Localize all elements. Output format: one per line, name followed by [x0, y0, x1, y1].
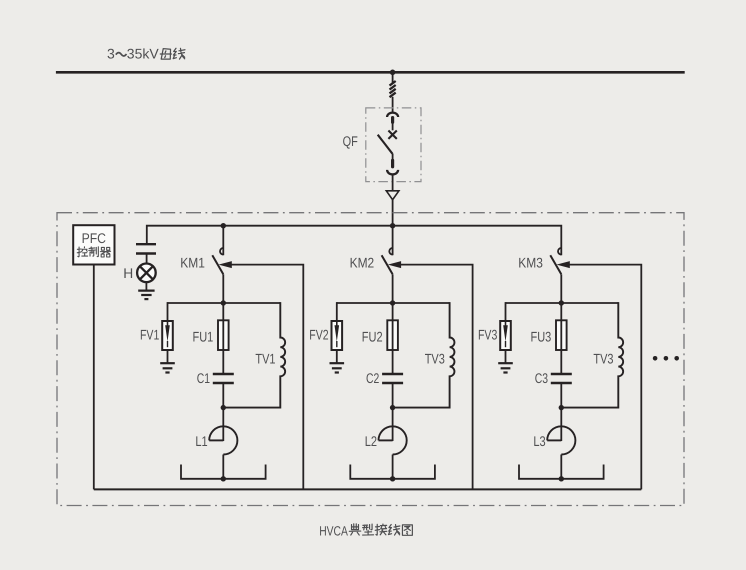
- svg-text:TV3: TV3: [425, 351, 445, 367]
- wire top bus to KM2: [392, 226, 394, 256]
- wire branch 1 rail: [168, 302, 281, 304]
- breaker QF withdrawable enclosure (dash-dot box): [366, 108, 421, 182]
- svg-text:QF: QF: [343, 133, 358, 149]
- svg-text:L1: L1: [195, 433, 207, 449]
- capacitor (coupling, lamp branch): [136, 243, 156, 245]
- wire KM3 to branch rail: [560, 274, 562, 303]
- svg-text:3: 3: [107, 45, 115, 61]
- wire KM2 return to bottom bus: [401, 265, 473, 490]
- wire top internal bus: [147, 226, 562, 256]
- wire reactor to tap bar: [222, 455, 224, 479]
- contactor KM2 actuator arrow: [388, 261, 401, 268]
- contactor KM2 fixed contact hook: [389, 248, 392, 255]
- contactor KM3 fixed contact hook: [558, 248, 561, 255]
- svg-text:FV1: FV1: [140, 327, 159, 343]
- wire lower contact to triangle: [392, 174, 394, 191]
- wire upper contact to fixed point: [392, 122, 394, 130]
- wire KM1 return to bottom bus: [231, 265, 303, 490]
- arrester FV2: [332, 321, 343, 350]
- fuse FU1: [218, 320, 229, 350]
- svg-text:KM1: KM1: [180, 255, 205, 271]
- capacitor C2: [382, 373, 403, 375]
- capacitor C1: [213, 373, 234, 375]
- drawout isolation marks: [390, 81, 396, 86]
- svg-text:FV3: FV3: [478, 327, 497, 343]
- wire rail through fuse to capacitor C2: [392, 303, 394, 374]
- node busbar tap junction: [390, 70, 396, 76]
- wire capacitor to node: [222, 383, 224, 408]
- QF lower plug-in contact: [391, 160, 394, 167]
- fuse FU3: [556, 320, 567, 350]
- svg-text:L3: L3: [533, 433, 545, 449]
- wire capacitor to node: [392, 383, 394, 408]
- svg-text:PFC: PFC: [82, 230, 106, 246]
- ground (arrester FV2): [330, 362, 345, 364]
- wire rail to arrester FV1: [167, 302, 169, 320]
- fuse FU2: [387, 320, 398, 350]
- node rail junction 2: [390, 300, 395, 305]
- QF upper plug-in contact: [387, 113, 398, 117]
- wire blade to lower contact: [392, 154, 394, 161]
- wire branch 2 rail: [337, 302, 450, 304]
- ground (arrester FV3): [498, 362, 513, 364]
- svg-text:TV1: TV1: [255, 351, 275, 367]
- wire marks to QF plug contact: [392, 97, 394, 113]
- reactor L3: [547, 426, 575, 454]
- svg-text:KM3: KM3: [518, 255, 543, 271]
- ground (lamp): [138, 290, 154, 292]
- arrester FV1: [162, 321, 173, 350]
- svg-text:FU1: FU1: [193, 329, 214, 345]
- svg-text:FU2: FU2: [362, 329, 383, 345]
- svg-text:TV3: TV3: [593, 351, 613, 367]
- svg-text:35kV: 35kV: [127, 45, 160, 61]
- QF blade: [378, 135, 393, 154]
- QF fixed contact X: [388, 131, 396, 139]
- wire triangle to top bus: [392, 200, 394, 226]
- node top bus junction branch 1: [221, 223, 226, 228]
- reactor L1: [209, 426, 237, 454]
- wire rail through fuse to capacitor C3: [560, 303, 562, 374]
- contactor KM3 actuator arrow: [557, 261, 570, 268]
- wire rail through fuse to capacitor C1: [222, 303, 224, 374]
- node top bus junction branch 2: [390, 223, 395, 228]
- svg-text:HVCA: HVCA: [319, 523, 348, 538]
- node below capacitor 2: [390, 405, 395, 410]
- wire branch 3 rail: [506, 302, 619, 304]
- busbar 3~35kV: [56, 71, 685, 74]
- node reactor tap 1: [221, 476, 226, 481]
- wire capacitor to node: [560, 383, 562, 408]
- lamp H: [137, 264, 156, 283]
- node rail junction 1: [221, 300, 226, 305]
- tap bar bracket 1: [181, 465, 266, 479]
- node below capacitor 3: [559, 405, 564, 410]
- svg-text:FU3: FU3: [531, 329, 552, 345]
- contactor KM1 fixed contact hook: [220, 248, 223, 255]
- cable head triangle: [386, 191, 399, 200]
- wire node to reactor L1: [222, 408, 224, 441]
- contactor KM1 blade: [212, 255, 223, 274]
- wire reactor to tap bar: [392, 455, 394, 479]
- node rail junction 3: [559, 300, 564, 305]
- wire rail to arrester FV2: [336, 302, 338, 320]
- tap bar bracket 2: [350, 465, 435, 479]
- wire KM3 return to bottom bus: [569, 265, 641, 490]
- wire capacitor to lamp: [146, 254, 148, 264]
- wire node to reactor L2: [392, 408, 394, 441]
- transformer TV3 winding: [393, 302, 455, 408]
- cabinet enclosure dash-dot box: [57, 213, 684, 506]
- svg-text:C3: C3: [535, 370, 548, 386]
- arrester FV3: [500, 321, 511, 350]
- node reactor tap 3: [559, 476, 564, 481]
- wire arrester to ground: [336, 350, 338, 363]
- transformer TV3 winding: [561, 302, 623, 408]
- wire PFC controller to bottom bus: [93, 265, 95, 490]
- wire bottom bus: [94, 488, 642, 490]
- wire arrester to ground: [167, 350, 169, 363]
- wire top bus to KM1: [222, 226, 224, 256]
- wire reactor to tap bar: [560, 455, 562, 479]
- svg-text:KM2: KM2: [350, 255, 375, 271]
- svg-text:L2: L2: [365, 433, 377, 449]
- wire KM1 to branch rail: [222, 274, 224, 303]
- tap bar bracket 3: [519, 465, 604, 479]
- wire arrester to ground: [505, 350, 507, 363]
- ground (arrester FV1): [160, 362, 175, 364]
- contactor KM3 blade: [550, 255, 561, 274]
- svg-text:C2: C2: [366, 370, 379, 386]
- wire node to reactor L3: [560, 408, 562, 441]
- wire lamp to ground: [145, 282, 147, 291]
- transformer TV1 winding: [223, 302, 285, 408]
- svg-text:H: H: [123, 265, 133, 281]
- reactor L2: [379, 426, 407, 454]
- contactor KM2 blade: [382, 255, 393, 274]
- svg-text:C1: C1: [197, 370, 210, 386]
- node below capacitor 1: [221, 405, 226, 410]
- svg-text:FV2: FV2: [309, 327, 328, 343]
- ellipsis more branches: [653, 356, 658, 361]
- PFC controller box U: [73, 225, 114, 264]
- capacitor C3: [551, 373, 572, 375]
- wire busbar to isolating marks: [392, 72, 394, 83]
- wire rail to arrester FV3: [505, 302, 507, 320]
- node reactor tap 2: [390, 476, 395, 481]
- contactor KM1 actuator arrow: [219, 261, 232, 268]
- wire KM2 to branch rail: [392, 274, 394, 303]
